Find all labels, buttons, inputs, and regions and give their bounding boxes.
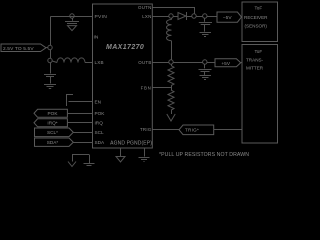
capacitor C2 input cap <box>44 75 56 84</box>
wire R2 to arrow <box>171 110 173 114</box>
block ToF transmitter <box>242 45 278 144</box>
node SDA label <box>35 138 74 146</box>
node POK label <box>34 109 67 117</box>
svg-text:2.5V TO 5.5V: 2.5V TO 5.5V <box>3 46 34 52</box>
wire node C to -5V label <box>207 16 217 18</box>
capacitor C4 on +5V rail <box>199 64 212 75</box>
svg-text:SDA: SDA <box>95 140 106 145</box>
node IRQ label <box>34 119 67 127</box>
svg-text:SCL*: SCL* <box>47 130 58 135</box>
wire node B to node C <box>196 16 202 18</box>
ground stub AGND under IC <box>116 148 125 162</box>
svg-text:LXB: LXB <box>95 60 104 65</box>
wire +5V to transmitter <box>241 62 242 64</box>
svg-text:FBN: FBN <box>141 86 152 91</box>
node E <box>203 60 207 64</box>
svg-text:IRQ: IRQ <box>95 121 104 126</box>
svg-text:−5V: −5V <box>223 15 232 21</box>
wire FB pin <box>152 87 171 89</box>
wire EN pin <box>69 101 93 103</box>
wire POK <box>67 113 92 115</box>
ground tie bottom-left <box>68 155 95 167</box>
svg-text:EN: EN <box>95 99 102 104</box>
node C <box>203 14 207 18</box>
svg-text:PVIN: PVIN <box>95 14 108 20</box>
svg-text:ToF: ToF <box>255 5 263 10</box>
wire diode to node B <box>187 16 192 18</box>
svg-text:*PULL UP RESISTORS NOT DRAWN: *PULL UP RESISTORS NOT DRAWN <box>159 152 249 158</box>
wire node E to +5V label <box>207 62 215 64</box>
wire SCL <box>73 132 92 134</box>
wire input bus middle <box>50 50 52 59</box>
ground bars under C2 <box>44 85 56 89</box>
op-amp U1 IC body MAX17270 <box>93 4 153 148</box>
svg-text:TRANS-: TRANS- <box>246 57 264 62</box>
ground stub PGND under IC <box>139 148 150 162</box>
wire input bus lower to C2 <box>50 63 52 74</box>
node bypass terminal circle <box>70 14 74 18</box>
resistor R1 divider upper <box>168 64 174 86</box>
node inductor junction circle 2 <box>48 58 52 62</box>
svg-text:LXN: LXN <box>142 14 151 19</box>
block ToF receiver sensor <box>242 2 278 42</box>
svg-text:OUTN: OUTN <box>138 5 151 10</box>
wire node A to diode <box>173 16 178 18</box>
wire input bus vertical upper <box>50 17 52 46</box>
svg-text:TRIG: TRIG <box>140 127 152 132</box>
node SCL label <box>35 128 74 137</box>
node VIN input label 2.5V TO 5.5V <box>1 44 46 52</box>
node +5V label <box>215 59 241 67</box>
svg-text:POK: POK <box>48 111 59 116</box>
svg-text:MITTER: MITTER <box>246 65 264 70</box>
wire TRIG label to transmitter <box>214 129 242 131</box>
wire INB pin wire <box>51 16 93 18</box>
node -5V label <box>217 12 242 22</box>
svg-text:AGND PGND(EP): AGND PGND(EP) <box>110 140 152 146</box>
inductor L2 vertical from node A <box>167 18 172 60</box>
svg-text:ToF: ToF <box>255 49 263 54</box>
node B <box>192 14 196 18</box>
wire input label to node <box>46 47 48 49</box>
ground bars under C4 <box>200 76 212 80</box>
diode D1 <box>178 12 187 20</box>
svg-text:POK: POK <box>95 111 106 116</box>
ground bars under C3 <box>200 33 212 37</box>
svg-text:RECEIVER: RECEIVER <box>244 15 268 20</box>
wire SDA <box>73 142 92 144</box>
arrow to negative rail <box>167 114 175 121</box>
svg-text:IRQ*: IRQ* <box>47 121 57 126</box>
svg-text:TRIG*: TRIG* <box>185 128 199 133</box>
capacitor C3 on -5V rail <box>199 18 212 31</box>
node A LXN junction <box>169 14 173 18</box>
wire EN stub step <box>66 95 73 107</box>
wire node D to node E <box>173 62 202 64</box>
resistor R2 divider lower <box>168 90 174 110</box>
wire OUTB pin <box>152 62 169 64</box>
wire LXN pin <box>152 16 169 18</box>
wire IRQ <box>67 122 92 124</box>
node TRIG label <box>179 125 214 135</box>
inductor L1 to LXB <box>52 58 92 63</box>
svg-text:(SENSOR): (SENSOR) <box>245 23 268 28</box>
svg-text:MAX17270: MAX17270 <box>106 44 144 51</box>
ground triangle under C1 <box>68 26 77 31</box>
wire TRIG pin <box>152 129 179 131</box>
svg-text:IN: IN <box>94 34 99 40</box>
svg-text:SCL: SCL <box>95 130 105 135</box>
svg-text:OUTB: OUTB <box>138 60 151 65</box>
node input junction circle 1 <box>48 45 52 49</box>
svg-text:SDA*: SDA* <box>47 140 59 145</box>
wire OUTN pin to node B <box>152 8 194 14</box>
svg-text:+5V: +5V <box>221 61 230 67</box>
wire R1 to FB row <box>171 86 173 90</box>
capacitor C1 bypass on INB <box>65 18 79 23</box>
node D OUTB junction <box>169 60 173 64</box>
